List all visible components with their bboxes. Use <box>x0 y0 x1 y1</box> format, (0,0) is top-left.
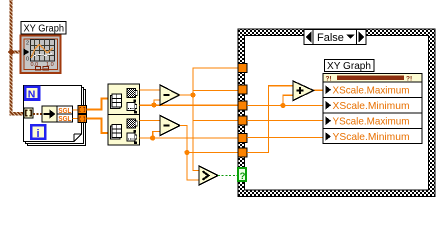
wire: SGL2 to bottom tunnel <box>73 118 79 120</box>
wire: branch into For-loop left tunnel <box>10 112 25 116</box>
i iteration terminal <box>31 125 45 140</box>
loop left tunnel [] <box>24 108 33 118</box>
wire: vertical bus x=193 with corner to T1 <box>193 68 238 171</box>
svg-text:False: False <box>317 32 344 44</box>
svg-text:SGL: SGL <box>58 114 71 123</box>
svg-text:1.0: 1.0 <box>46 62 54 68</box>
svg-text:XY Graph: XY Graph <box>24 24 65 35</box>
wire: SGL1 to top tunnel <box>73 109 79 111</box>
subtract node 2 <box>160 116 180 136</box>
wire stub: junction up to add lower input <box>283 95 293 105</box>
junction dot <box>151 102 156 107</box>
property node body <box>323 74 422 144</box>
label "XY Graph" (terminal label) <box>21 22 66 35</box>
svg-text:XScale.Minimum: XScale.Minimum <box>333 100 410 112</box>
wire: T3 to property row2 <box>247 105 325 107</box>
wire: subtract1 output to vertical bus <box>180 94 194 96</box>
junction dot subtract2 net <box>184 150 189 155</box>
junction on hatched wire <box>8 49 15 56</box>
Array Max & Min node 1 <box>108 84 140 115</box>
row 2 XScale.Minimum <box>326 101 332 110</box>
row 4 YScale.Minimum <box>326 132 332 141</box>
case selector tunnel ? <box>238 168 246 182</box>
wire: branch to XY Graph terminal <box>11 51 22 54</box>
arrow (cluster to components) node <box>42 106 57 122</box>
property node label "XY Graph" <box>325 60 375 73</box>
SGL output label 2 <box>57 114 73 123</box>
subtract node 1 <box>160 85 180 105</box>
greater-than node <box>199 166 218 185</box>
For loop stacked frame 3 <box>28 90 86 146</box>
case tunnel T5 <box>238 134 247 143</box>
junction dot subtract1 output <box>190 92 195 97</box>
wire: node2 max to subtract2 top input <box>140 120 161 122</box>
case tunnel T1 <box>238 64 247 73</box>
wire: node1 max to subtract1 top input <box>140 89 161 91</box>
svg-text:?!: ?! <box>326 76 332 83</box>
wire: branch to T2 <box>193 90 238 92</box>
svg-text:0.0: 0.0 <box>31 62 39 68</box>
wire: array SGL to Array Max&Min 1 <box>87 99 109 110</box>
wire stub: junction up to subtract1 lower input <box>154 100 160 105</box>
case tunnel T3 <box>238 101 247 110</box>
title bar row <box>323 74 422 83</box>
Array Max & Min node 2 <box>108 115 140 146</box>
wire stub: junction up to subtract2 lower input <box>153 132 160 139</box>
wire: subtract2 output down x=187 <box>180 126 199 181</box>
wire: T4 to property row3 <box>247 120 325 122</box>
SGL output label 1 <box>57 106 73 115</box>
svg-text:2: 2 <box>26 41 29 47</box>
svg-text:?: ? <box>240 171 246 182</box>
case structure border <box>238 29 435 197</box>
N count terminal <box>25 87 39 101</box>
wire: branch to T6 <box>187 152 238 154</box>
junction dot <box>280 103 285 108</box>
row 3 YScale.Maximum <box>326 117 332 126</box>
loop right indexing tunnel top <box>78 106 87 114</box>
wire: array-of-clusters vertical trunk at left <box>10 0 13 116</box>
wire: cluster (dotted brown) tunnel to arrow node <box>33 113 42 115</box>
wire: node2 min to junction, T5 tunnel <box>140 137 239 139</box>
case tunnel T6 <box>238 148 247 157</box>
case tunnel T4 <box>238 116 247 125</box>
svg-text:XScale.Maximum: XScale.Maximum <box>333 85 410 97</box>
svg-text:YScale.Maximum: YScale.Maximum <box>333 116 410 128</box>
junction dot <box>150 135 155 140</box>
For loop stacked frame 2 <box>26 88 84 144</box>
add node <box>293 81 314 101</box>
wire: add output to property row1 <box>314 89 327 91</box>
terminal input arrow <box>24 49 30 56</box>
svg-text:?!: ?! <box>406 76 412 83</box>
svg-text:XY Graph: XY Graph <box>327 61 371 72</box>
wire: boolean dashed to selector tunnel <box>218 175 238 177</box>
svg-text:0: 0 <box>26 57 29 63</box>
wire: node1 min to junction, T3 tunnel <box>140 104 239 106</box>
wire: branch to T4 <box>193 120 238 122</box>
svg-text:YScale.Minimum: YScale.Minimum <box>333 131 410 143</box>
For loop main frame with folded corner <box>24 86 82 142</box>
svg-text:i: i <box>37 128 40 140</box>
case selector label "False" <box>304 30 366 45</box>
wire: array SGL to Array Max&Min 2 <box>87 119 109 134</box>
XY Graph terminal icon <box>21 36 61 74</box>
row 1 XScale.Maximum <box>326 86 332 95</box>
case tunnel T2 <box>238 85 247 94</box>
wire: T6 up to add top input <box>247 86 293 153</box>
loop right indexing tunnel bottom <box>78 115 87 123</box>
row separators <box>323 97 422 99</box>
wire: T5 to property row4 <box>247 137 325 139</box>
svg-text:N: N <box>28 88 36 100</box>
